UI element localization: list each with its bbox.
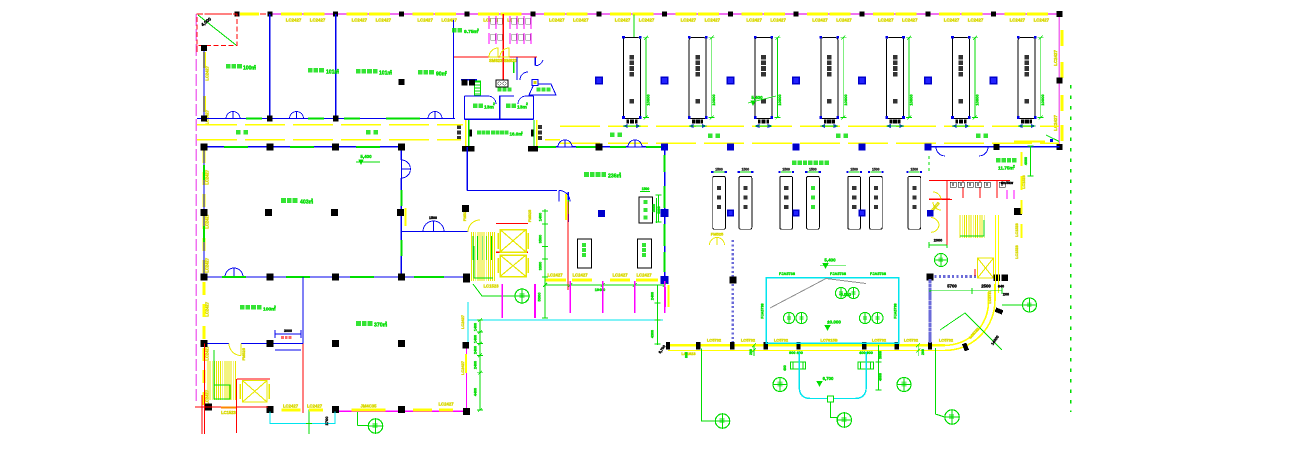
dim: machine 4 base arrows xyxy=(821,125,825,128)
dim: 1500 above carton machine 6 xyxy=(871,171,882,173)
wire: left boundary yellow dashes xyxy=(203,52,206,68)
door: double doors on bottom wall xyxy=(226,112,233,119)
svg-text:2: 2 xyxy=(445,71,447,75)
room label: CheJianDianFang 11.75m2 xyxy=(996,158,1000,162)
dim: 3000 left of carton area xyxy=(658,195,660,222)
svg-text:LC2427: LC2427 xyxy=(812,17,828,22)
svg-text:2: 2 xyxy=(619,172,621,176)
dim: 2000 right block xyxy=(929,244,947,246)
svg-text:640: 640 xyxy=(998,285,1004,289)
marker: circle pair left inside pad xyxy=(783,312,794,323)
wire: magenta+yellow verticals x=666 xyxy=(665,287,667,307)
svg-text:LC2427: LC2427 xyxy=(441,17,457,22)
svg-text:1700: 1700 xyxy=(324,416,329,426)
marker: circle pair top right of pad xyxy=(835,287,846,298)
marker: green survey circle bottom-left xyxy=(357,412,359,426)
marker: single circle left-mid xyxy=(773,378,787,392)
wire: green drop from road right xyxy=(935,348,944,417)
svg-text:LC5737: LC5737 xyxy=(988,290,992,303)
fixture: fan room shape xyxy=(529,84,556,95)
svg-text:FM525: FM525 xyxy=(527,209,532,222)
svg-text:LC2427: LC2427 xyxy=(1053,114,1058,130)
wall: inspection room top wall xyxy=(533,146,558,148)
wire: green dashed boundary x=1070.7 xyxy=(1070,85,1072,412)
door: FM525 yellow arc xyxy=(229,344,241,356)
svg-text:LC2427: LC2427 xyxy=(352,17,368,22)
svg-text:14000: 14000 xyxy=(991,335,1000,346)
dim: road top 5700 2500 640 xyxy=(930,290,1002,292)
room label: ChengPinCang 370m2 xyxy=(356,321,361,326)
node: black squares x=466 xyxy=(463,342,470,349)
wall: inspection right x=664.6 xyxy=(664,147,666,280)
machine: production equipment 3 xyxy=(755,38,772,119)
wall: yellow double wall x=996 lower xyxy=(995,215,997,293)
dim: machine 5 base arrows xyxy=(887,125,891,128)
svg-text:LC2427: LC2427 xyxy=(573,17,589,22)
wire: purple dashed vertical x=930 xyxy=(929,277,932,345)
svg-text:4000: 4000 xyxy=(879,373,883,381)
node: columns bottom row xyxy=(205,404,212,411)
stairs: right block staircase xyxy=(959,215,961,238)
svg-text:LC2427: LC2427 xyxy=(746,17,762,22)
svg-text:6,700: 6,700 xyxy=(823,376,834,381)
wall: warehouse right x=401.4 xyxy=(400,147,402,160)
wire: right magenta vertical of warehouse xyxy=(466,344,468,412)
svg-text:2400: 2400 xyxy=(474,361,478,369)
marker: survey circle left below road xyxy=(701,349,715,422)
svg-text:LC2427: LC2427 xyxy=(944,17,960,22)
svg-text:LC2427: LC2427 xyxy=(376,17,392,22)
window: green segs on right wall xyxy=(663,155,665,172)
pipe: cyan U duct main xyxy=(799,352,866,399)
svg-text:FM525: FM525 xyxy=(711,232,724,237)
svg-text:LC2427: LC2427 xyxy=(438,402,454,407)
dim: green line inspection bottom xyxy=(545,284,665,286)
node: warehouse columns xyxy=(201,143,208,150)
wall: right block top wall y=146.9 xyxy=(928,146,1060,148)
marker: survey circle right block xyxy=(935,254,948,267)
svg-text:5300: 5300 xyxy=(537,292,542,302)
wire: yellow dashes x=1021 xyxy=(1020,152,1022,166)
machine: carton machine 1 xyxy=(713,176,726,229)
marker: survey circle far bottom right xyxy=(945,410,959,424)
fixture: water heater with burners xyxy=(496,80,508,87)
machine: inspection machine lower-left xyxy=(578,239,592,268)
machine: carton machine 7 xyxy=(908,176,921,229)
room label: hoistway 16.0m2 xyxy=(477,131,481,135)
svg-text:±0.000: ±0.000 xyxy=(827,320,841,325)
svg-text:LC1523: LC1523 xyxy=(483,284,499,289)
machine: inspection machine lower-right xyxy=(638,239,652,268)
wall: y=343.5 partial with door xyxy=(204,343,229,345)
node: columns row y=146.9 xyxy=(462,146,475,152)
svg-text:8,700: 8,700 xyxy=(658,344,667,354)
wall: divider x=303 red part xyxy=(302,344,304,414)
svg-text:LC5732: LC5732 xyxy=(774,338,789,343)
wire: yellow dash vertical x=466 xyxy=(465,354,467,373)
machine: production equipment 6 xyxy=(952,38,969,119)
wire: left boundary pink line xyxy=(195,14,197,404)
svg-text:5,400: 5,400 xyxy=(751,95,763,100)
elevator: bottom-left X box xyxy=(243,381,268,403)
svg-text:4000: 4000 xyxy=(1024,157,1028,165)
svg-text:2: 2 xyxy=(493,102,495,106)
svg-text:1500: 1500 xyxy=(715,168,723,172)
svg-text:2: 2 xyxy=(311,198,313,202)
dim: 1500 above carton machine 5 xyxy=(849,171,860,173)
svg-text:10000: 10000 xyxy=(645,94,650,106)
svg-text:1500: 1500 xyxy=(642,187,650,191)
marker: survey circle below duct xyxy=(837,413,851,427)
svg-text:3000: 3000 xyxy=(657,206,661,214)
wall: room divider x=204 xyxy=(203,46,205,119)
wire: purple dashed riser x=930 (lower) xyxy=(929,279,932,344)
svg-text:2400: 2400 xyxy=(651,292,655,300)
dim: green chain x=657 left of road xyxy=(656,285,658,345)
label: cargo door right xyxy=(538,125,542,129)
node: right boundary columns xyxy=(1056,11,1062,17)
dim: machine 1 base arrows xyxy=(623,125,627,128)
wire: gray leader lines xyxy=(770,279,826,309)
svg-text:3000: 3000 xyxy=(879,351,883,359)
svg-text:400: 400 xyxy=(783,365,787,371)
dim: 1500 above carton machine 4 xyxy=(808,171,819,173)
svg-text:LC2427: LC2427 xyxy=(705,17,721,22)
road: yellow secondary line y=350.4 xyxy=(668,349,945,351)
door: stub wall double door xyxy=(423,221,434,232)
label: orange sill xyxy=(221,406,236,408)
wall: inspection inner y=190.5 xyxy=(467,190,557,192)
pad: cyan rectangle outline xyxy=(766,278,899,344)
svg-text:200: 200 xyxy=(749,349,753,355)
svg-text:2: 2 xyxy=(254,65,256,69)
wire: top boundary red dashed segment xyxy=(197,13,270,15)
fixture: magenta bits right toilets xyxy=(1006,190,1008,199)
svg-text:10000: 10000 xyxy=(843,94,848,106)
machine pedestal 1 xyxy=(626,119,637,123)
wall: mens/womens toilet outline xyxy=(465,95,489,97)
svg-text:2000: 2000 xyxy=(934,239,942,243)
wire: yellow dashes on bottom magenta xyxy=(282,409,301,412)
node: black square purple corner xyxy=(927,274,934,281)
dim: 1500 above carton machine 7 xyxy=(909,171,920,173)
dim: machine 6 height dim xyxy=(974,38,976,118)
room label: NanCe 13m2 xyxy=(473,104,477,108)
dim: 200 ticks between road lines xyxy=(753,345,755,356)
wall: red lines around stair block xyxy=(195,406,222,408)
dim: green chain x=545 with labels xyxy=(544,209,546,318)
room label: ShaoShuiJian xyxy=(498,88,502,92)
room label: YanFaSheJiShi 101m2 xyxy=(356,69,361,74)
marker: circle pair right inside pad xyxy=(859,312,870,323)
door: arc into inspection room xyxy=(559,191,570,202)
dim: machine 1 height dim xyxy=(645,38,647,118)
svg-text:LC2427: LC2427 xyxy=(547,273,563,278)
svg-text:LC2427: LC2427 xyxy=(205,301,210,316)
svg-text:200: 200 xyxy=(921,349,925,355)
wall: tea room walls blue xyxy=(461,79,477,81)
svg-text:10000: 10000 xyxy=(1040,94,1045,106)
machine: carton machine 2 xyxy=(739,176,752,229)
fixture: flange left xyxy=(791,362,806,369)
machine: production equipment 7 xyxy=(1018,38,1035,119)
machine: carton machine 5 xyxy=(848,176,861,229)
svg-text:LC2427: LC2427 xyxy=(878,17,894,22)
door: yellow arcs washroom xyxy=(489,48,498,57)
shaft: hoistway side strips xyxy=(465,120,467,146)
svg-text:2: 2 xyxy=(526,102,528,106)
svg-text:1500: 1500 xyxy=(872,168,880,172)
svg-text:LC2427: LC2427 xyxy=(1053,49,1058,65)
room label: JianCeShi 100m2 xyxy=(226,64,231,69)
svg-text:1500: 1500 xyxy=(742,168,750,172)
svg-text:LC2427: LC2427 xyxy=(205,345,210,360)
dim: machine 5 height dim xyxy=(908,38,910,118)
wire: purple dashed horizontal y=276.5 xyxy=(930,275,977,278)
svg-text:LC2427: LC2427 xyxy=(417,17,433,22)
wire: green dashed seg x=929 xyxy=(928,156,930,174)
room label: FuLiaoCangKu 100m2 xyxy=(240,305,245,310)
wall: red line below door x=568 xyxy=(567,202,569,291)
node: top boundary column squares xyxy=(235,12,240,17)
svg-text:FJA5738: FJA5738 xyxy=(779,271,796,276)
door: arcs right block top wall xyxy=(936,147,945,156)
svg-text:1500: 1500 xyxy=(911,168,919,172)
node: black square on purple riser xyxy=(729,277,736,284)
wall: red partition vertical x=503.3 xyxy=(502,14,504,80)
dim: machine 7 height dim xyxy=(1040,38,1042,118)
wall: red lines at elevators xyxy=(496,223,528,225)
node: column at grid x=401 y=82 xyxy=(398,79,404,85)
svg-text:LC2427: LC2427 xyxy=(770,17,786,22)
svg-text:19400: 19400 xyxy=(595,288,606,292)
node: small blue dot xyxy=(1050,139,1053,142)
svg-text:LC1523: LC1523 xyxy=(221,410,236,415)
svg-text:LC2427: LC2427 xyxy=(205,389,210,404)
svg-text:JM4C35: JM4C35 xyxy=(360,404,377,409)
elevator: mid X box lower xyxy=(500,255,526,277)
svg-text:LC5732: LC5732 xyxy=(707,338,722,343)
pipe: cyan vertical x=468 xyxy=(467,302,469,343)
fixture: toilet stalls magenta xyxy=(488,16,490,29)
svg-text:4400: 4400 xyxy=(474,388,478,396)
wall: warehouse bottom y=277 xyxy=(204,276,225,278)
wall: room divider x=269.8 xyxy=(269,14,271,119)
door: FM525 right carton wall xyxy=(931,218,939,226)
dim: machine 3 base arrows xyxy=(755,125,759,128)
machine pedestal 3 xyxy=(758,119,769,123)
machine: production equipment 1 xyxy=(623,38,640,119)
node: black columns on road xyxy=(666,342,670,350)
door: warehouse bottom door xyxy=(225,268,234,277)
dim: green chain x=480 bottom-left xyxy=(479,320,481,410)
svg-text:LC2427: LC2427 xyxy=(310,17,326,22)
wire: green diagonal top right corner xyxy=(1046,135,1059,141)
stairs: middle staircase hatch xyxy=(471,232,473,281)
machine: carton machine 3 xyxy=(780,176,793,229)
svg-text:2500: 2500 xyxy=(981,284,991,289)
dim: machine 7 base arrows xyxy=(1018,125,1022,128)
svg-text:LC1523: LC1523 xyxy=(1015,245,1019,259)
svg-text:LC2427: LC2427 xyxy=(307,404,323,409)
node: columns mid block xyxy=(462,205,469,212)
wall: room divider x=453.5 xyxy=(453,20,455,119)
dim: machine 3 height dim xyxy=(777,38,779,118)
svg-text:LC5732: LC5732 xyxy=(872,338,887,343)
svg-text:2: 2 xyxy=(274,305,276,309)
room label: YuanLiaoCang 403m2 xyxy=(281,198,286,203)
machine pedestal 7 xyxy=(1021,119,1032,123)
svg-text:1500: 1500 xyxy=(850,168,858,172)
door: warehouse right wall door xyxy=(401,160,410,169)
wire: magenta risers below inspection xyxy=(569,281,571,313)
svg-text:2: 2 xyxy=(385,321,387,325)
dim: 4000 green right xyxy=(1030,146,1032,176)
fixture: squat pans right block xyxy=(950,182,956,187)
svg-text:1400: 1400 xyxy=(474,335,478,343)
wall: red bits right of carton xyxy=(929,198,950,200)
svg-text:1400: 1400 xyxy=(474,323,478,331)
dim: 1500 above carton machine 1 xyxy=(714,171,725,173)
machine: production equipment 4 xyxy=(821,38,838,119)
svg-text:11.75m: 11.75m xyxy=(998,166,1014,171)
label: cargo door left xyxy=(457,125,461,129)
wall: inspection left x=467.2 xyxy=(466,147,468,191)
label: corridor ZouLang texts xyxy=(236,130,240,134)
svg-text:10000: 10000 xyxy=(974,94,979,106)
svg-text:LC2427: LC2427 xyxy=(615,17,631,22)
svg-text:LC1523: LC1523 xyxy=(1015,223,1019,237)
wire: top boundary pink property line xyxy=(270,13,1059,15)
wire: corridor yellow line upper xyxy=(197,124,463,126)
node: black columns pair right xyxy=(994,275,1001,282)
door: yellow arcs right toilets xyxy=(933,192,941,200)
svg-text:LC2427: LC2427 xyxy=(1010,17,1026,22)
shaft: green hatch small shaft xyxy=(475,81,480,83)
node: columns row y=343.5 xyxy=(201,340,208,347)
room label: FengGuanShi xyxy=(537,88,541,92)
window: green segs inspection top wall xyxy=(536,146,556,148)
svg-text:3000: 3000 xyxy=(284,329,292,333)
svg-text:5,400: 5,400 xyxy=(360,154,372,159)
svg-text:LC5732: LC5732 xyxy=(939,338,954,343)
svg-text:LC2427: LC2427 xyxy=(572,273,588,278)
wire: inspection bottom yellow dashes xyxy=(545,279,566,282)
svg-text:LC2427: LC2427 xyxy=(205,65,210,80)
dim: machine 4 height dim xyxy=(842,38,844,118)
wire: green vertical x=601 top xyxy=(633,15,635,38)
svg-text:LC2427: LC2427 xyxy=(286,17,302,22)
wall: warehouse top wall y=146.9 xyxy=(204,146,401,148)
svg-text:2400: 2400 xyxy=(474,346,478,354)
dim: machine 2 base arrows xyxy=(689,125,693,128)
room label: lift 9.75m2 xyxy=(452,28,456,32)
window: green segments on bottom wall xyxy=(246,118,262,120)
ramp: green diagonal xyxy=(198,15,236,45)
svg-text:2: 2 xyxy=(337,69,339,73)
svg-text:FJA5738: FJA5738 xyxy=(830,271,847,276)
wire: yellow jamb right of warehouse wall xyxy=(405,208,407,226)
window: green passage seg xyxy=(513,62,515,73)
fixture: flange right xyxy=(858,362,874,369)
elevator: right block X box xyxy=(978,258,994,278)
svg-text:900 400: 900 400 xyxy=(789,351,803,355)
svg-text:3300: 3300 xyxy=(539,262,543,270)
svg-text:LC2427: LC2427 xyxy=(460,361,465,375)
machine pedestal 4 xyxy=(824,119,835,123)
svg-text:2: 2 xyxy=(521,130,523,134)
stairs: green flight outline xyxy=(214,385,230,399)
svg-text:LC2427: LC2427 xyxy=(283,404,299,409)
svg-text:LC2427: LC2427 xyxy=(549,17,565,22)
node: blue columns production row y=80.5 xyxy=(595,77,603,85)
svg-text:FJA5738: FJA5738 xyxy=(894,303,898,318)
svg-text:FJA5738: FJA5738 xyxy=(761,303,765,318)
marker: survey circle road right xyxy=(1002,304,1022,306)
svg-text:2: 2 xyxy=(1013,165,1015,169)
stairs: green arrow middle xyxy=(474,246,493,278)
node: blue square x=930 y=213 xyxy=(927,210,934,217)
svg-text:LC2427: LC2427 xyxy=(205,169,210,184)
wire: red tick above purple xyxy=(974,269,976,276)
ramp: red dashed box top-left xyxy=(197,14,237,46)
wall: red toilet lines right block xyxy=(929,180,1010,182)
svg-text:4300: 4300 xyxy=(651,330,655,338)
machine pedestal 5 xyxy=(890,119,901,123)
machine pedestal 6 xyxy=(955,119,966,123)
node: blue column x=664.6 y=213 xyxy=(661,209,669,217)
fixture: stall white pans xyxy=(491,18,496,24)
dim: small door dim annotation xyxy=(275,333,301,335)
wire: corridor yellow line mid production xyxy=(560,125,1059,127)
machine: production equipment 5 xyxy=(887,38,904,119)
wire: top boundary yellow dashes xyxy=(240,13,259,16)
valve: green square on duct xyxy=(827,396,833,402)
svg-text:LC2427: LC2427 xyxy=(681,17,697,22)
wire: right boundary pink+yellow x=1059 xyxy=(1058,14,1060,147)
wire: green riser at x=309 xyxy=(308,410,310,434)
dim: 1500 above carton machine 2 xyxy=(740,171,751,173)
node: blue columns carton row xyxy=(727,209,734,216)
room label: ChuangXinShi 90m2 xyxy=(418,70,423,75)
svg-text:LC2427: LC2427 xyxy=(639,17,655,22)
elevator: mid X box upper xyxy=(500,230,526,253)
svg-text:FJA5738: FJA5738 xyxy=(870,271,887,276)
svg-text:LC2427: LC2427 xyxy=(636,273,652,278)
machine: production equipment 2 xyxy=(689,38,706,119)
door: double doors inspection top wall xyxy=(558,140,565,147)
svg-text:LC2427: LC2427 xyxy=(968,17,984,22)
svg-text:10000: 10000 xyxy=(777,94,782,106)
svg-text:1500: 1500 xyxy=(782,168,790,172)
road: yellow curve to vertical xyxy=(945,284,995,350)
wall: warehouse left x=204 xyxy=(203,147,205,277)
svg-text:LC2427: LC2427 xyxy=(460,315,465,329)
dim: machine 2 height dim xyxy=(711,38,713,118)
wire: purple dashed riser x=732.8 xyxy=(731,240,734,344)
room label: ShiYanShi 101m2 xyxy=(308,68,313,73)
svg-text:5700: 5700 xyxy=(947,284,957,289)
wall: blue seg below door x=568 xyxy=(567,192,569,222)
window: green segs warehouse walls xyxy=(222,276,246,278)
pipe: cyan horizontal y=320 xyxy=(468,319,663,321)
machine: inspection machine upper-right xyxy=(639,197,653,223)
wall: corridor stub y=231.5 xyxy=(401,231,423,233)
wall: rooms bottom wall y=118.5 with door gaps xyxy=(197,118,226,120)
svg-text:1400: 1400 xyxy=(539,213,543,221)
svg-text:3500: 3500 xyxy=(539,235,543,243)
svg-text:800: 800 xyxy=(685,352,689,358)
